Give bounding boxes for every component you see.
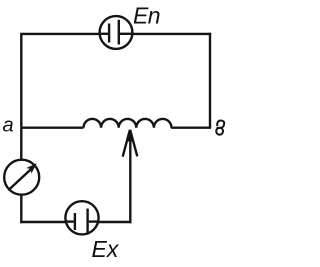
cell En right lead bbox=[120, 33, 132, 35]
svg-text:a: a bbox=[3, 114, 14, 136]
cell En short plate bbox=[108, 24, 110, 43]
cell En long plate bbox=[118, 20, 120, 45]
cell Ex long plate bbox=[86, 209, 88, 234]
wire right vertical bbox=[209, 33, 211, 128]
cell Ex short plate bbox=[74, 213, 76, 230]
slider arrow left barb bbox=[123, 130, 130, 157]
label в (node в) bbox=[216, 120, 224, 134]
wire top horizontal right segment bbox=[133, 33, 212, 35]
inductor coil (slidewire) bbox=[84, 119, 172, 128]
wire galvanometer bottom to corner bbox=[20, 194, 22, 223]
wire bottom horizontal (corner to cell Ex) bbox=[20, 221, 65, 223]
wire bottom horizontal (cell Ex to slider corner) bbox=[99, 221, 131, 223]
cell Ex left lead bbox=[65, 220, 74, 222]
wire middle horizontal left (node a to coil) bbox=[21, 126, 83, 128]
galvanometer needle arrowhead bbox=[26, 163, 37, 173]
svg-text:En: En bbox=[133, 3, 160, 29]
cell En left lead bbox=[100, 33, 108, 35]
wire left vertical (node a to galvanometer) bbox=[20, 128, 22, 160]
wire middle horizontal right (coil to node в) bbox=[171, 126, 211, 128]
cell En circle bbox=[100, 16, 133, 49]
cell Ex right lead bbox=[89, 220, 100, 222]
wire top horizontal left segment bbox=[20, 33, 99, 35]
wire left vertical (top corner to node a) bbox=[20, 34, 22, 128]
galvanometer circle bbox=[4, 160, 39, 195]
svg-text:Ex: Ex bbox=[92, 236, 120, 262]
cell Ex circle bbox=[65, 201, 98, 234]
slider arrow right barb bbox=[130, 130, 137, 157]
slider arrow shaft bbox=[129, 131, 131, 223]
slider arrowhead fill bbox=[127, 130, 134, 142]
galvanometer needle bbox=[8, 169, 31, 191]
